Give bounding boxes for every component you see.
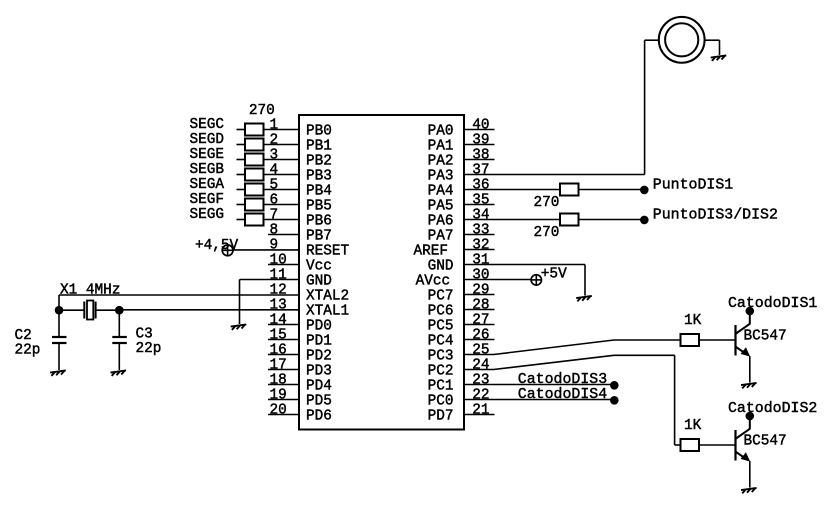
value label 1K (R10) bbox=[684, 313, 702, 329]
pin name PC7 bbox=[428, 289, 454, 305]
wire U1 pin 34 PA6 to R9 bbox=[464, 219, 560, 221]
svg-text:CatodoDIS1: CatodoDIS1 bbox=[728, 296, 817, 312]
svg-text:PA7: PA7 bbox=[428, 229, 454, 245]
value label +5V bbox=[541, 267, 567, 283]
pin name PA3 bbox=[428, 169, 454, 185]
svg-text:29: 29 bbox=[472, 282, 489, 298]
wire SEGE to R3 bbox=[237, 159, 246, 161]
svg-text:SEGD: SEGD bbox=[190, 132, 225, 148]
transistor Q2 BC547 bbox=[736, 416, 751, 488]
svg-text:1: 1 bbox=[270, 117, 279, 133]
pin number 31 bbox=[472, 252, 489, 268]
svg-text:SEGF: SEGF bbox=[190, 192, 225, 208]
svg-text:PB5: PB5 bbox=[306, 199, 332, 215]
wire U1 pin 27 stub bbox=[464, 324, 495, 326]
wire U1 pin 24 PC2 to R11 bbox=[464, 355, 681, 445]
svg-text:BC547: BC547 bbox=[744, 433, 787, 449]
ground (C3) bbox=[111, 370, 127, 376]
wire U1 pin 19 stub bbox=[268, 399, 299, 401]
pin number 39 bbox=[472, 132, 489, 148]
pin number 38 bbox=[472, 147, 489, 163]
wire R3 to U1 pin 3 bbox=[264, 159, 300, 161]
wire R11 to Q2 base bbox=[699, 444, 735, 446]
svg-text:PD6: PD6 bbox=[306, 409, 332, 425]
svg-text:14: 14 bbox=[270, 312, 287, 328]
resistor R9 270 bbox=[560, 214, 579, 226]
pin name PB5 bbox=[306, 199, 332, 215]
svg-text:PB3: PB3 bbox=[306, 169, 332, 185]
resistor R5 270 bbox=[245, 184, 264, 196]
value label BC547 (Q2) bbox=[744, 433, 787, 449]
svg-text:5: 5 bbox=[270, 177, 279, 193]
net label SEGE bbox=[190, 147, 225, 163]
value label C3 22p bbox=[136, 326, 162, 357]
pin number 2 bbox=[270, 132, 279, 148]
pin name GND bbox=[428, 259, 454, 275]
pin number 36 bbox=[472, 177, 489, 193]
pin number 4 bbox=[270, 162, 279, 178]
svg-text:34: 34 bbox=[472, 207, 489, 223]
wire U1 pin 16 stub bbox=[268, 354, 299, 356]
svg-text:1K: 1K bbox=[684, 313, 702, 329]
pin number 12 bbox=[270, 282, 287, 298]
wire U1 pin 17 stub bbox=[268, 369, 299, 371]
svg-text:22p: 22p bbox=[15, 343, 41, 359]
pin number 24 bbox=[472, 357, 489, 373]
svg-text:11: 11 bbox=[270, 267, 287, 283]
pin name PB1 bbox=[306, 139, 332, 155]
capacitor C3 22p bbox=[112, 310, 127, 370]
value label X1 4MHz bbox=[60, 283, 120, 299]
svg-text:32: 32 bbox=[472, 237, 489, 253]
pin name PC0 bbox=[428, 394, 454, 410]
svg-text:PB7: PB7 bbox=[306, 229, 332, 245]
svg-text:18: 18 bbox=[270, 372, 287, 388]
node CatodoDIS4 terminal bbox=[610, 396, 619, 405]
pin number 13 bbox=[270, 297, 287, 313]
svg-text:25: 25 bbox=[472, 342, 489, 358]
node CatodoDIS2 terminal bbox=[746, 412, 755, 421]
net label SEGF bbox=[190, 192, 225, 208]
net label CatodoDIS4 bbox=[518, 387, 607, 403]
value label BC547 (Q1) bbox=[744, 328, 787, 344]
pin name PC5 bbox=[428, 319, 454, 335]
wire U1 pin 39 stub bbox=[464, 144, 495, 146]
pin number 30 bbox=[472, 267, 489, 283]
svg-text:8: 8 bbox=[270, 222, 279, 238]
svg-text:PA0: PA0 bbox=[428, 124, 454, 140]
svg-text:4: 4 bbox=[270, 162, 279, 178]
pin number 20 bbox=[270, 402, 287, 418]
wire U1 pin 35 stub bbox=[464, 204, 495, 206]
svg-text:PB1: PB1 bbox=[306, 139, 332, 155]
pin number 26 bbox=[472, 327, 489, 343]
wire U1 pin 26 stub bbox=[464, 339, 495, 341]
pin name PB0 bbox=[306, 124, 332, 140]
wire U1 pin 40 stub bbox=[464, 129, 495, 131]
svg-text:PC2: PC2 bbox=[428, 364, 454, 380]
svg-text:PA1: PA1 bbox=[428, 139, 454, 155]
svg-text:38: 38 bbox=[472, 147, 489, 163]
wire R8 to PuntoDIS1 node bbox=[579, 189, 645, 191]
transistor Q1 BC547 bbox=[736, 311, 751, 383]
pin number 28 bbox=[472, 297, 489, 313]
svg-text:19: 19 bbox=[270, 387, 287, 403]
svg-text:PD1: PD1 bbox=[306, 334, 332, 350]
resistor R4 270 bbox=[245, 169, 264, 181]
pin name PB3 bbox=[306, 169, 332, 185]
svg-text:7: 7 bbox=[270, 207, 279, 223]
net label CatodoDIS2 bbox=[728, 401, 817, 417]
pin name PA6 bbox=[428, 214, 454, 230]
pin name PA4 bbox=[428, 184, 454, 200]
power supply +4,5V symbol bbox=[222, 245, 233, 256]
svg-text:BC547: BC547 bbox=[744, 328, 787, 344]
pin name PA5 bbox=[428, 199, 454, 215]
pin name Vcc bbox=[306, 259, 332, 275]
resistor R7 270 bbox=[245, 214, 264, 226]
pin name GND bbox=[306, 274, 332, 290]
resistor R3 270 bbox=[245, 154, 264, 166]
ground (buzzer) bbox=[711, 55, 727, 61]
pin number 21 bbox=[472, 402, 489, 418]
pin number 8 bbox=[270, 222, 279, 238]
svg-text:27: 27 bbox=[472, 312, 489, 328]
pin name XTAL2 bbox=[306, 289, 349, 305]
svg-text:XTAL1: XTAL1 bbox=[306, 304, 349, 320]
svg-text:PC3: PC3 bbox=[428, 349, 454, 365]
svg-text:C2: C2 bbox=[15, 328, 32, 344]
svg-text:10: 10 bbox=[270, 252, 287, 268]
wire U1 pin 29 stub bbox=[464, 294, 495, 296]
node CatodoDIS1 terminal bbox=[746, 307, 755, 316]
pin name PB7 bbox=[306, 229, 332, 245]
wire SEGC to R1 bbox=[237, 129, 246, 131]
pin number 27 bbox=[472, 312, 489, 328]
crystal X1 4MHz bbox=[59, 301, 119, 320]
wire U1 pin 23 PC1 to CatodoDIS3 node bbox=[464, 384, 612, 386]
svg-text:SEGE: SEGE bbox=[190, 147, 225, 163]
svg-text:35: 35 bbox=[472, 192, 489, 208]
net label SEGA bbox=[190, 177, 225, 193]
ground (pin 11 GND) bbox=[231, 324, 247, 330]
pin name PC2 bbox=[428, 364, 454, 380]
wire buzzer to ground bbox=[705, 40, 720, 55]
pin name PD3 bbox=[306, 364, 332, 380]
ground (Q1 emitter) bbox=[741, 383, 757, 389]
pin number 14 bbox=[270, 312, 287, 328]
wire SEGA to R5 bbox=[237, 189, 246, 191]
svg-text:20: 20 bbox=[270, 402, 287, 418]
svg-text:12: 12 bbox=[270, 282, 287, 298]
ground (C2) bbox=[50, 370, 66, 376]
net label SEGD bbox=[190, 132, 225, 148]
svg-text:15: 15 bbox=[270, 327, 287, 343]
pin number 32 bbox=[472, 237, 489, 253]
pin name AVcc bbox=[416, 274, 451, 290]
wire R5 to U1 pin 5 bbox=[264, 189, 300, 191]
wire U1 pin 31 GND to ground bbox=[464, 265, 585, 296]
pin name PA7 bbox=[428, 229, 454, 245]
wire SEGG to R7 bbox=[237, 219, 246, 221]
svg-text:33: 33 bbox=[472, 222, 489, 238]
svg-text:PC7: PC7 bbox=[428, 289, 454, 305]
svg-text:22: 22 bbox=[472, 387, 489, 403]
net label SEGC bbox=[190, 117, 225, 133]
pin name PD7 bbox=[428, 409, 454, 425]
svg-text:30: 30 bbox=[472, 267, 489, 283]
svg-text:CatodoDIS4: CatodoDIS4 bbox=[518, 387, 607, 403]
wire R4 to U1 pin 4 bbox=[264, 174, 300, 176]
node B junction (XTAL1/C3) bbox=[115, 306, 124, 315]
svg-text:PC0: PC0 bbox=[428, 394, 454, 410]
svg-text:SEGG: SEGG bbox=[190, 207, 225, 223]
svg-text:22p: 22p bbox=[136, 341, 162, 357]
svg-text:PA4: PA4 bbox=[428, 184, 454, 200]
svg-text:PA5: PA5 bbox=[428, 199, 454, 215]
pin number 1 bbox=[270, 117, 279, 133]
svg-text:AREF: AREF bbox=[413, 244, 448, 260]
svg-text:40: 40 bbox=[472, 117, 489, 133]
pin name RESET bbox=[306, 244, 350, 260]
power supply +5V symbol bbox=[531, 275, 541, 285]
svg-text:1K: 1K bbox=[684, 418, 702, 434]
svg-text:PD2: PD2 bbox=[306, 349, 332, 365]
pin number 3 bbox=[270, 147, 279, 163]
svg-text:GND: GND bbox=[428, 259, 454, 275]
pin number 6 bbox=[270, 192, 279, 208]
svg-text:2: 2 bbox=[270, 132, 279, 148]
pin number 34 bbox=[472, 207, 489, 223]
wire U1 pin 10 stub bbox=[268, 264, 299, 266]
value label C2 22p bbox=[15, 328, 41, 359]
pin number 29 bbox=[472, 282, 489, 298]
net label CatodoDIS1 bbox=[728, 296, 817, 312]
svg-text:36: 36 bbox=[472, 177, 489, 193]
node PuntoDIS3/DIS2 terminal bbox=[640, 216, 649, 225]
svg-text:270: 270 bbox=[249, 103, 275, 119]
svg-text:+5V: +5V bbox=[541, 267, 567, 283]
svg-text:9: 9 bbox=[270, 237, 279, 253]
capacitor C2 22p bbox=[52, 310, 67, 370]
svg-text:PB4: PB4 bbox=[306, 184, 332, 200]
wire U1 pin 15 stub bbox=[268, 339, 299, 341]
wire XTAL1 net: crystal node B to U1 pin 13 bbox=[119, 309, 299, 311]
svg-text:21: 21 bbox=[472, 402, 489, 418]
svg-text:CatodoDIS3: CatodoDIS3 bbox=[518, 372, 607, 388]
pin number 16 bbox=[270, 342, 287, 358]
svg-text:28: 28 bbox=[472, 297, 489, 313]
value label 270 (segment resistors) bbox=[249, 103, 275, 119]
pin name PC1 bbox=[428, 379, 454, 395]
wire U1 pin 14 stub bbox=[268, 324, 299, 326]
pin name PD5 bbox=[306, 394, 332, 410]
svg-text:PB2: PB2 bbox=[306, 154, 332, 170]
pin number 15 bbox=[270, 327, 287, 343]
wire U1 pin 36 PA4 to R8 bbox=[464, 189, 560, 191]
wire U1 pin 18 stub bbox=[268, 384, 299, 386]
pin name PD0 bbox=[306, 319, 332, 335]
pin name PD2 bbox=[306, 349, 332, 365]
resistor R1 270 bbox=[245, 124, 264, 136]
pin number 19 bbox=[270, 387, 287, 403]
pin number 11 bbox=[270, 267, 287, 283]
wire R9 to PuntoDIS3/DIS2 node bbox=[579, 219, 645, 221]
wire SEGB to R4 bbox=[237, 174, 246, 176]
svg-text:PD7: PD7 bbox=[428, 409, 454, 425]
svg-text:37: 37 bbox=[472, 162, 489, 178]
svg-text:PuntoDIS3/DIS2: PuntoDIS3/DIS2 bbox=[653, 207, 778, 223]
ground (Q2 emitter) bbox=[741, 488, 757, 494]
svg-text:PD4: PD4 bbox=[306, 379, 332, 395]
wire U1 pin 21 stub bbox=[464, 414, 495, 416]
ground (pin 31 GND) bbox=[576, 296, 592, 302]
pin name PB2 bbox=[306, 154, 332, 170]
pin name PD1 bbox=[306, 334, 332, 350]
svg-text:GND: GND bbox=[306, 274, 332, 290]
wire R2 to U1 pin 2 bbox=[264, 144, 300, 146]
resistor R8 270 bbox=[560, 184, 579, 196]
svg-text:3: 3 bbox=[270, 147, 279, 163]
svg-text:PC5: PC5 bbox=[428, 319, 454, 335]
svg-text:23: 23 bbox=[472, 372, 489, 388]
pin number 5 bbox=[270, 177, 279, 193]
wire U1 pin 28 stub bbox=[464, 309, 495, 311]
svg-text:24: 24 bbox=[472, 357, 489, 373]
svg-text:17: 17 bbox=[270, 357, 287, 373]
svg-text:SEGA: SEGA bbox=[190, 177, 225, 193]
svg-text:PA6: PA6 bbox=[428, 214, 454, 230]
svg-text:PD0: PD0 bbox=[306, 319, 332, 335]
net label SEGG bbox=[190, 207, 225, 223]
wire R10 to Q1 base bbox=[699, 339, 735, 341]
resistor R11 1K bbox=[681, 439, 700, 451]
resistor R2 270 bbox=[245, 139, 264, 151]
pin number 37 bbox=[472, 162, 489, 178]
wire U1 pin 32 stub bbox=[464, 249, 495, 251]
value label +4,5V bbox=[195, 238, 239, 254]
svg-text:270: 270 bbox=[534, 225, 560, 241]
svg-text:PB6: PB6 bbox=[306, 214, 332, 230]
svg-text:PD5: PD5 bbox=[306, 394, 332, 410]
pin number 10 bbox=[270, 252, 287, 268]
wire U1 pin 25 PC3 to R10 bbox=[464, 340, 681, 355]
wire U1 pin 37 PA3 to buzzer bbox=[464, 40, 659, 174]
pin number 23 bbox=[472, 372, 489, 388]
svg-text:PuntoDIS1: PuntoDIS1 bbox=[653, 177, 733, 193]
value label 270 (R8) bbox=[534, 195, 560, 211]
pin name PB6 bbox=[306, 214, 332, 230]
svg-text:PA2: PA2 bbox=[428, 154, 454, 170]
pin number 35 bbox=[472, 192, 489, 208]
svg-text:PD3: PD3 bbox=[306, 364, 332, 380]
resistor R10 1K bbox=[681, 334, 700, 346]
pin name AREF bbox=[413, 244, 448, 260]
value label 1K (R11) bbox=[684, 418, 702, 434]
net label SEGB bbox=[190, 162, 225, 178]
pin name PC6 bbox=[428, 304, 454, 320]
svg-text:PC6: PC6 bbox=[428, 304, 454, 320]
svg-text:SEGC: SEGC bbox=[190, 117, 225, 133]
wire R7 to U1 pin 7 bbox=[264, 219, 300, 221]
pin name PD6 bbox=[306, 409, 332, 425]
wire XTAL2 net: U1 pin 12 to crystal node A bbox=[59, 295, 299, 310]
wire +4,5V to U1 pin 9 RESET bbox=[233, 249, 299, 251]
pin number 40 bbox=[472, 117, 489, 133]
svg-text:XTAL2: XTAL2 bbox=[306, 289, 349, 305]
pin number 7 bbox=[270, 207, 279, 223]
node CatodoDIS3 terminal bbox=[610, 381, 619, 390]
svg-text:X1 4MHz: X1 4MHz bbox=[60, 283, 120, 299]
svg-text:AVcc: AVcc bbox=[416, 274, 451, 290]
pin number 9 bbox=[270, 237, 279, 253]
wire U1 pin 22 PC0 to CatodoDIS4 node bbox=[464, 399, 612, 401]
resistor R6 270 bbox=[245, 199, 264, 211]
svg-text:PA3: PA3 bbox=[428, 169, 454, 185]
pin name PC4 bbox=[428, 334, 454, 350]
wire U1 pin 20 stub bbox=[268, 414, 299, 416]
svg-text:6: 6 bbox=[270, 192, 279, 208]
pin name PA0 bbox=[428, 124, 454, 140]
wire U1 pin 30 AVcc to +5V bbox=[464, 279, 531, 281]
svg-text:Vcc: Vcc bbox=[306, 259, 332, 275]
svg-text:SEGB: SEGB bbox=[190, 162, 225, 178]
wire U1 pin 8 stub bbox=[268, 234, 299, 236]
net label CatodoDIS3 bbox=[518, 372, 607, 388]
wire U1 pin 38 stub bbox=[464, 159, 495, 161]
svg-text:39: 39 bbox=[472, 132, 489, 148]
node PuntoDIS1 terminal bbox=[640, 186, 649, 195]
wire SEGF to R6 bbox=[237, 204, 246, 206]
IC U1 40-pin microcontroller body bbox=[299, 115, 464, 430]
wire R6 to U1 pin 6 bbox=[264, 204, 300, 206]
svg-text:PB0: PB0 bbox=[306, 124, 332, 140]
pin number 22 bbox=[472, 387, 489, 403]
pin name PD4 bbox=[306, 379, 332, 395]
pin number 25 bbox=[472, 342, 489, 358]
svg-text:PC4: PC4 bbox=[428, 334, 454, 350]
pin name XTAL1 bbox=[306, 304, 349, 320]
wire SEGD to R2 bbox=[237, 144, 246, 146]
pin name PC3 bbox=[428, 349, 454, 365]
wire U1 pin 33 stub bbox=[464, 234, 495, 236]
svg-text:C3: C3 bbox=[136, 326, 153, 342]
svg-text:16: 16 bbox=[270, 342, 287, 358]
pin number 17 bbox=[270, 357, 287, 373]
svg-text:26: 26 bbox=[472, 327, 489, 343]
svg-text:CatodoDIS2: CatodoDIS2 bbox=[728, 401, 817, 417]
svg-text:RESET: RESET bbox=[306, 244, 350, 260]
wire U1 pin 11 GND to ground bbox=[240, 280, 300, 325]
svg-text:31: 31 bbox=[472, 252, 489, 268]
value label 270 (R9) bbox=[534, 225, 560, 241]
net label PuntoDIS1 bbox=[653, 177, 733, 193]
svg-text:+4,5V: +4,5V bbox=[195, 238, 239, 254]
svg-text:PC1: PC1 bbox=[428, 379, 454, 395]
pin name PB4 bbox=[306, 184, 332, 200]
pin name PA1 bbox=[428, 139, 454, 155]
buzzer LS1 bbox=[659, 17, 705, 63]
node A junction (XTAL2/C2) bbox=[55, 306, 64, 315]
pin number 18 bbox=[270, 372, 287, 388]
pin name PA2 bbox=[428, 154, 454, 170]
svg-text:270: 270 bbox=[534, 195, 560, 211]
pin number 33 bbox=[472, 222, 489, 238]
svg-text:13: 13 bbox=[270, 297, 287, 313]
net label PuntoDIS3/DIS2 bbox=[653, 207, 778, 223]
wire R1 to U1 pin 1 bbox=[264, 129, 300, 131]
